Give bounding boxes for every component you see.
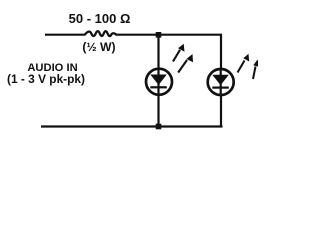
svg-text:50 - 100 Ω: 50 - 100 Ω bbox=[69, 11, 131, 26]
svg-text:(1 - 3 V pk-pk): (1 - 3 V pk-pk) bbox=[7, 72, 85, 86]
svg-text:(½ W): (½ W) bbox=[82, 40, 115, 54]
